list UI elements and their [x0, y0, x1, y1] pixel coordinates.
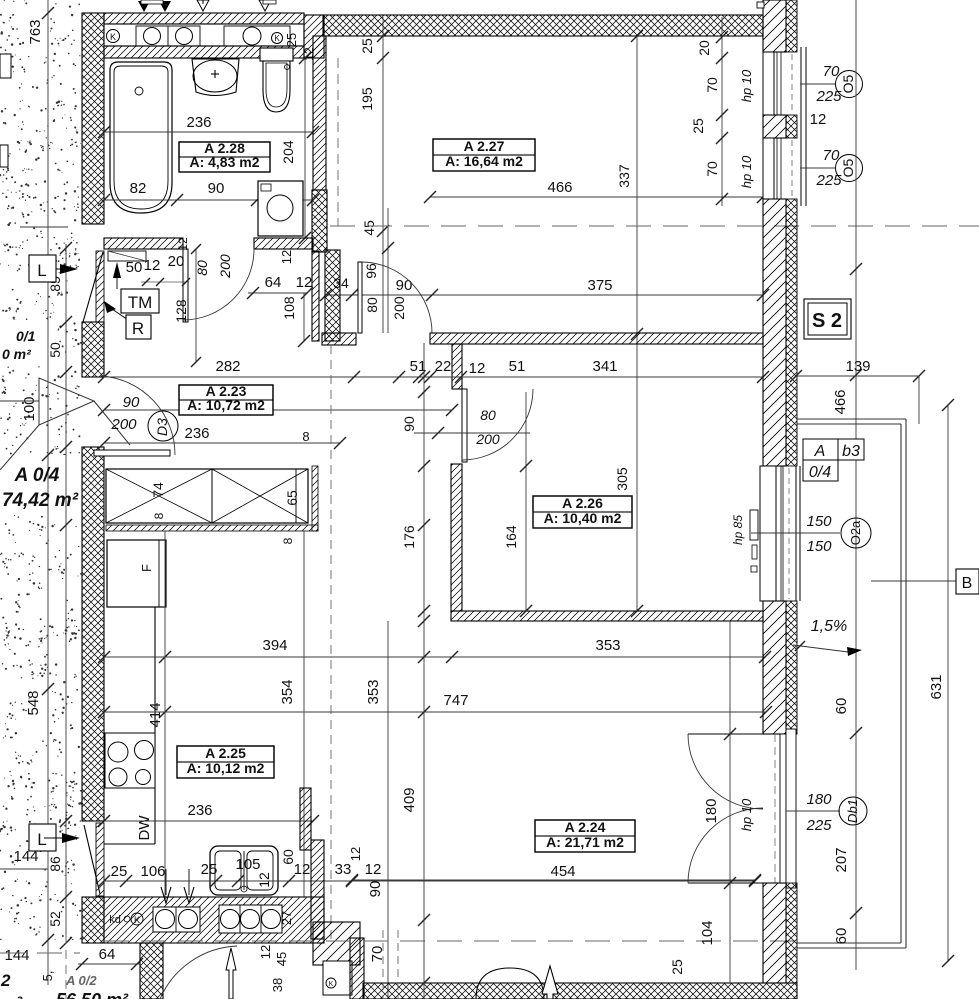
svg-text:80: 80 [194, 260, 210, 276]
TM niche [108, 251, 146, 261]
svg-text:64: 64 [265, 274, 282, 291]
svg-text:200: 200 [110, 416, 137, 433]
svg-text:90: 90 [208, 180, 225, 197]
svg-text:200: 200 [217, 254, 233, 279]
svg-text:A: 10,40 m2: A: 10,40 m2 [544, 510, 622, 526]
bathroom east wall [313, 36, 326, 190]
svg-text:108: 108 [281, 296, 297, 320]
svg-text:12: 12 [294, 861, 311, 878]
svg-text:8: 8 [152, 512, 166, 519]
balcony corner line [918, 376, 920, 424]
TM box [121, 289, 159, 313]
entrance arrow 2 [62, 833, 80, 843]
svg-text:A: 16,64 m2: A: 16,64 m2 [445, 153, 523, 169]
dim line 51 22 12 51 341 [104, 376, 763, 378]
svg-text:25: 25 [201, 861, 218, 878]
window O5 upper [763, 52, 774, 115]
R box [126, 315, 151, 339]
wall kitchen-living divider [311, 840, 324, 939]
svg-text:b3: b3 [842, 443, 860, 460]
south wall living [363, 983, 797, 999]
dim line 236 bathroom [104, 131, 313, 133]
right wall segment top [763, 0, 786, 52]
top right small box [757, 2, 764, 8]
svg-text:38: 38 [270, 978, 285, 992]
svg-text:kd: kd [109, 914, 121, 926]
svg-text:200: 200 [391, 296, 407, 320]
svg-text:A: 10,12 m2: A: 10,12 m2 [187, 760, 265, 776]
svg-text:128: 128 [173, 299, 189, 323]
dim 180 rotated [729, 621, 731, 983]
svg-text:236: 236 [186, 114, 211, 131]
svg-text:394: 394 [262, 637, 287, 654]
section dash line [330, 225, 979, 227]
shaft box [323, 961, 352, 995]
hall north wall stub [312, 251, 319, 341]
left short line y227 [20, 226, 68, 228]
svg-text:763: 763 [27, 19, 44, 44]
dim line 466 [430, 196, 763, 198]
svg-text:282: 282 [215, 358, 240, 375]
svg-text:144: 144 [4, 947, 29, 964]
svg-text:A 2.25: A 2.25 [205, 745, 246, 761]
fridge [107, 540, 166, 607]
svg-text:22: 22 [435, 358, 452, 375]
A2.26 south wall [451, 611, 763, 621]
svg-text:80: 80 [480, 407, 496, 423]
svg-text:548: 548 [25, 690, 42, 715]
svg-text:A 2.24: A 2.24 [565, 819, 606, 835]
small terrain box [0, 54, 11, 78]
svg-text:70: 70 [369, 946, 386, 963]
svg-text:106: 106 [140, 863, 165, 880]
neighbour basin unit left [136, 26, 200, 46]
right wall segment bottom [763, 883, 786, 983]
svg-text:12: 12 [348, 847, 363, 861]
lower apartment bathtub [476, 968, 544, 999]
kitchen sink [210, 846, 278, 895]
svg-text:27: 27 [279, 911, 294, 925]
svg-text:105: 105 [235, 856, 260, 873]
room label A 2.26 [533, 496, 632, 528]
B box [871, 580, 956, 582]
svg-text:A 2.26: A 2.26 [562, 495, 603, 511]
O5 annotation lower [800, 167, 836, 169]
wall below kitchen west [300, 788, 311, 850]
svg-text:466: 466 [832, 389, 849, 414]
corner block [313, 922, 360, 965]
kitchen counter [154, 607, 156, 844]
A2.27 door arc [362, 262, 432, 333]
balcony outline [797, 418, 906, 420]
svg-text:K: K [110, 32, 116, 42]
bathroom south wall east [254, 238, 313, 249]
entrance arrow [60, 264, 78, 274]
thin wall below wardrobe [106, 525, 318, 531]
svg-text:236: 236 [187, 802, 212, 819]
dashed verticals shaft [382, 930, 384, 999]
TM arrow [113, 262, 121, 278]
gap lines [313, 14, 323, 16]
bathroom south wall west [104, 238, 183, 249]
O2a annotation [751, 532, 840, 534]
svg-text:A: 21,71 m2: A: 21,71 m2 [546, 834, 624, 850]
svg-text:TM: TM [128, 293, 153, 312]
svg-text:74: 74 [150, 482, 166, 498]
svg-text:8: 8 [281, 537, 295, 544]
svg-text:747: 747 [443, 692, 468, 709]
ventilation shaft block [325, 250, 340, 341]
entrance door leaf 2 [84, 825, 100, 894]
L box 1 [29, 255, 56, 282]
svg-text:K: K [329, 981, 334, 988]
svg-text:195: 195 [359, 87, 375, 111]
svg-text:96: 96 [363, 263, 379, 279]
svg-text:50: 50 [47, 342, 63, 358]
vent arrow 2 [542, 966, 558, 999]
svg-text:hp 85: hp 85 [731, 515, 745, 545]
svg-text:K: K [134, 915, 140, 925]
dim line 454 [352, 879, 755, 881]
svg-text:150: 150 [806, 538, 832, 555]
window O2a handle [750, 510, 758, 540]
svg-text:45: 45 [361, 220, 377, 236]
A2.27 door leaf [358, 262, 362, 333]
dashed vertical [337, 58, 339, 226]
svg-text:O5: O5 [840, 158, 856, 177]
room label A 2.27 [433, 139, 535, 171]
svg-text:A: 10,72 m2: A: 10,72 m2 [187, 397, 265, 413]
svg-text:A: 4,83 m2: A: 4,83 m2 [189, 154, 259, 170]
svg-text:DW: DW [136, 815, 153, 841]
dim 204 rotated [304, 58, 306, 238]
window sill lines top [800, 47, 802, 206]
svg-text:12: 12 [176, 237, 190, 251]
svg-text:S 2: S 2 [812, 310, 842, 332]
svg-text:F: F [139, 564, 154, 572]
left exterior wall lower [82, 447, 104, 821]
svg-text:60: 60 [833, 698, 850, 715]
dim 354 rotated [303, 531, 305, 897]
lower apartment wall strip [140, 943, 163, 999]
bathtub drain [135, 87, 143, 95]
right wall segment below O2a [763, 601, 786, 734]
svg-text:B: B [962, 575, 973, 592]
svg-text:A 0/2: A 0/2 [65, 973, 97, 988]
left exterior wall upper [82, 13, 104, 224]
svg-text:82: 82 [130, 180, 147, 197]
dim 414 rotated [164, 531, 166, 897]
svg-text:A 0/4: A 0/4 [14, 465, 60, 486]
svg-text:0/4: 0/4 [809, 464, 831, 481]
svg-text:70: 70 [704, 77, 720, 93]
svg-text:25: 25 [690, 118, 706, 134]
left dimension line main [47, 0, 49, 985]
dim 64 bottom [78, 963, 140, 965]
svg-text:hp 10: hp 10 [739, 69, 754, 102]
axis line right [855, 0, 857, 970]
dim 139 [796, 375, 919, 377]
K symbol [107, 30, 120, 43]
svg-text:5,: 5, [40, 971, 55, 982]
svg-text:204: 204 [280, 140, 296, 164]
svg-text:1,5%: 1,5% [811, 618, 847, 635]
svg-text:139: 139 [845, 358, 870, 375]
svg-text:353: 353 [595, 637, 620, 654]
stove [105, 733, 155, 788]
terrain label clearings [0, 320, 56, 366]
svg-text:51: 51 [509, 358, 526, 375]
dim 631 rotated [947, 405, 949, 961]
dim line 25 195 vertical [382, 17, 384, 333]
svg-text:12: 12 [296, 274, 313, 291]
svg-text:90: 90 [396, 277, 413, 294]
svg-text:454: 454 [550, 863, 575, 880]
svg-text:164: 164 [503, 525, 519, 549]
dim 128 rotated [195, 249, 197, 362]
O5 annotation upper [800, 83, 836, 85]
svg-text:A: A [814, 443, 826, 460]
wall strip bottom [350, 938, 364, 999]
toilet [260, 48, 293, 61]
right wall segment mid [763, 199, 786, 466]
svg-text:12: 12 [810, 111, 827, 128]
svg-text:8: 8 [302, 429, 309, 444]
corner wall block top [304, 15, 324, 58]
bathroom door arc [183, 249, 254, 320]
A2.26 west stub [452, 344, 462, 389]
D3 circle [148, 411, 178, 441]
left exterior wall bottom [82, 897, 104, 943]
svg-text:K: K [274, 34, 280, 43]
top wall band lower [104, 46, 304, 58]
dim 164 rotated [525, 392, 527, 611]
svg-text:104: 104 [699, 920, 716, 945]
washing machine [258, 181, 303, 236]
neighbour sink unit 2 [219, 905, 282, 933]
svg-text:414: 414 [147, 702, 164, 727]
svg-text:150: 150 [806, 513, 832, 530]
svg-text:64: 64 [99, 946, 116, 963]
vent arrow 1 [226, 948, 236, 999]
washbasin [192, 59, 239, 96]
svg-text:0 m²: 0 m² [2, 346, 31, 362]
svg-text:50: 50 [126, 259, 143, 276]
svg-text:65: 65 [284, 490, 300, 506]
left dimension line secondary [65, 244, 67, 944]
window mullion [763, 115, 786, 138]
room label A 2.28 [179, 142, 270, 172]
L box 2 [29, 824, 56, 851]
D3 door arc [101, 376, 175, 455]
dim 409 rotated [423, 343, 425, 999]
svg-text:O2a: O2a [848, 520, 863, 545]
svg-text:O5: O5 [840, 74, 856, 93]
dash line bottom [104, 940, 795, 942]
svg-text:225: 225 [815, 172, 842, 189]
svg-text:90: 90 [123, 394, 140, 411]
svg-text:375: 375 [587, 277, 612, 294]
svg-text:144: 144 [13, 848, 38, 865]
dim 45 96 vertical [387, 208, 389, 333]
top wall band upper [104, 13, 304, 24]
svg-text:80: 80 [364, 297, 380, 313]
svg-text:176: 176 [401, 525, 417, 549]
svg-text:12: 12 [258, 945, 273, 959]
R arrow [104, 301, 116, 313]
svg-text:236: 236 [184, 425, 209, 442]
svg-text:337: 337 [616, 164, 632, 188]
svg-text:L: L [37, 261, 46, 280]
svg-text:0/1: 0/1 [16, 328, 36, 344]
svg-text:m²: m² [0, 993, 23, 999]
dashed line bottom far left [0, 952, 80, 954]
svg-text:409: 409 [401, 787, 418, 812]
neighbour basin unit right [224, 26, 290, 46]
svg-text:341: 341 [592, 358, 617, 375]
hall niche dims 64 12 [248, 292, 307, 294]
svg-text:25: 25 [669, 959, 685, 975]
bathroom door leaf [183, 249, 188, 322]
svg-text:56,50 m²: 56,50 m² [56, 990, 129, 999]
svg-text:25: 25 [284, 33, 299, 47]
north exterior wall [323, 15, 763, 36]
svg-text:353: 353 [365, 679, 382, 704]
neighbour sink unit 1 [153, 907, 200, 932]
svg-text:12: 12 [469, 360, 486, 377]
room label A 2.24 [535, 820, 635, 852]
svg-text:12: 12 [365, 861, 382, 878]
svg-text:12: 12 [256, 872, 272, 888]
svg-text:180: 180 [703, 798, 720, 823]
svg-text:20: 20 [168, 253, 185, 270]
D3 door wall [94, 450, 170, 456]
svg-text:25: 25 [111, 863, 128, 880]
svg-text:90: 90 [401, 416, 417, 432]
section triangle [39, 378, 94, 425]
balcony door leaves [688, 733, 763, 735]
svg-text:52: 52 [47, 911, 63, 927]
kitchen south wall [104, 897, 324, 943]
thin wall right of wardrobe [312, 466, 318, 531]
svg-text:A 2.27: A 2.27 [464, 138, 505, 154]
svg-text:hp 10: hp 10 [739, 155, 754, 188]
A2.26 west wall [451, 464, 462, 611]
A 0/4 b3 boxes [803, 439, 838, 481]
dim 353 rotated [387, 621, 389, 999]
dim line 82 90 64 [104, 199, 313, 201]
svg-text:45: 45 [274, 952, 289, 966]
svg-text:70: 70 [704, 161, 720, 177]
A2.26 door leaf [462, 389, 467, 462]
svg-text:466: 466 [547, 179, 572, 196]
dashed vertical shaft axis [330, 345, 332, 940]
room label A 2.23 [179, 385, 273, 415]
svg-text:207: 207 [833, 847, 850, 872]
svg-text:180: 180 [806, 791, 832, 808]
taps above top wall [138, 1, 150, 12]
terrain speckle band [0, 0, 85, 999]
dim line 394 353 [104, 656, 765, 658]
svg-text:225: 225 [805, 817, 832, 834]
svg-text:631: 631 [928, 674, 945, 699]
dim line 394 hall [104, 409, 452, 411]
svg-text:33: 33 [335, 861, 352, 878]
window O2a [760, 466, 776, 601]
Db1 annotation [786, 810, 840, 812]
dim 337 305 vertical [636, 36, 638, 611]
lower apartment door arc [160, 946, 237, 999]
svg-text:20: 20 [696, 40, 712, 56]
svg-text:2: 2 [0, 971, 11, 990]
S 2 box [804, 299, 851, 339]
svg-text:86: 86 [47, 856, 63, 872]
right wall dims vertical [721, 17, 723, 206]
balcony door frame [780, 734, 786, 883]
A2.26 north wall [430, 333, 763, 344]
entrance door leaf [83, 252, 103, 322]
supply arrows [161, 887, 171, 903]
dim line 747 [104, 711, 766, 713]
svg-text:60: 60 [833, 928, 850, 945]
svg-text:25: 25 [359, 38, 375, 54]
K symbol 2 [272, 33, 283, 44]
svg-text:R: R [132, 319, 144, 338]
svg-text:354: 354 [279, 679, 296, 704]
dim line kitchen bottom [104, 880, 755, 882]
svg-text:305: 305 [614, 467, 630, 491]
svg-text:hp 10: hp 10 [739, 798, 754, 831]
svg-text:225: 225 [815, 88, 842, 105]
bathtub [110, 62, 172, 213]
dashed vline bottom left [65, 935, 67, 999]
A2.26 door arc [462, 389, 533, 460]
svg-text:100: 100 [21, 396, 38, 421]
left exterior wall mid [82, 322, 104, 377]
svg-text:Db1: Db1 [845, 799, 860, 823]
svg-text:L: L [37, 830, 46, 849]
svg-text:12: 12 [144, 257, 161, 274]
A2.27 south wall west piece [322, 333, 356, 345]
dim line 236 hall [104, 442, 340, 444]
window O5 lower [763, 138, 774, 199]
svg-text:12: 12 [279, 250, 294, 264]
dim line 34 90 375 [326, 294, 763, 296]
room label A 2.25 [177, 746, 274, 778]
washing machine niche wall [312, 190, 327, 252]
small terrain box 2 [0, 145, 8, 167]
neighbour counter row [104, 24, 304, 46]
wardrobe [106, 469, 308, 523]
svg-text:90: 90 [367, 881, 384, 898]
svg-text:74,42 m²: 74,42 m² [2, 490, 79, 511]
dim line 236 kitchen [104, 820, 313, 822]
